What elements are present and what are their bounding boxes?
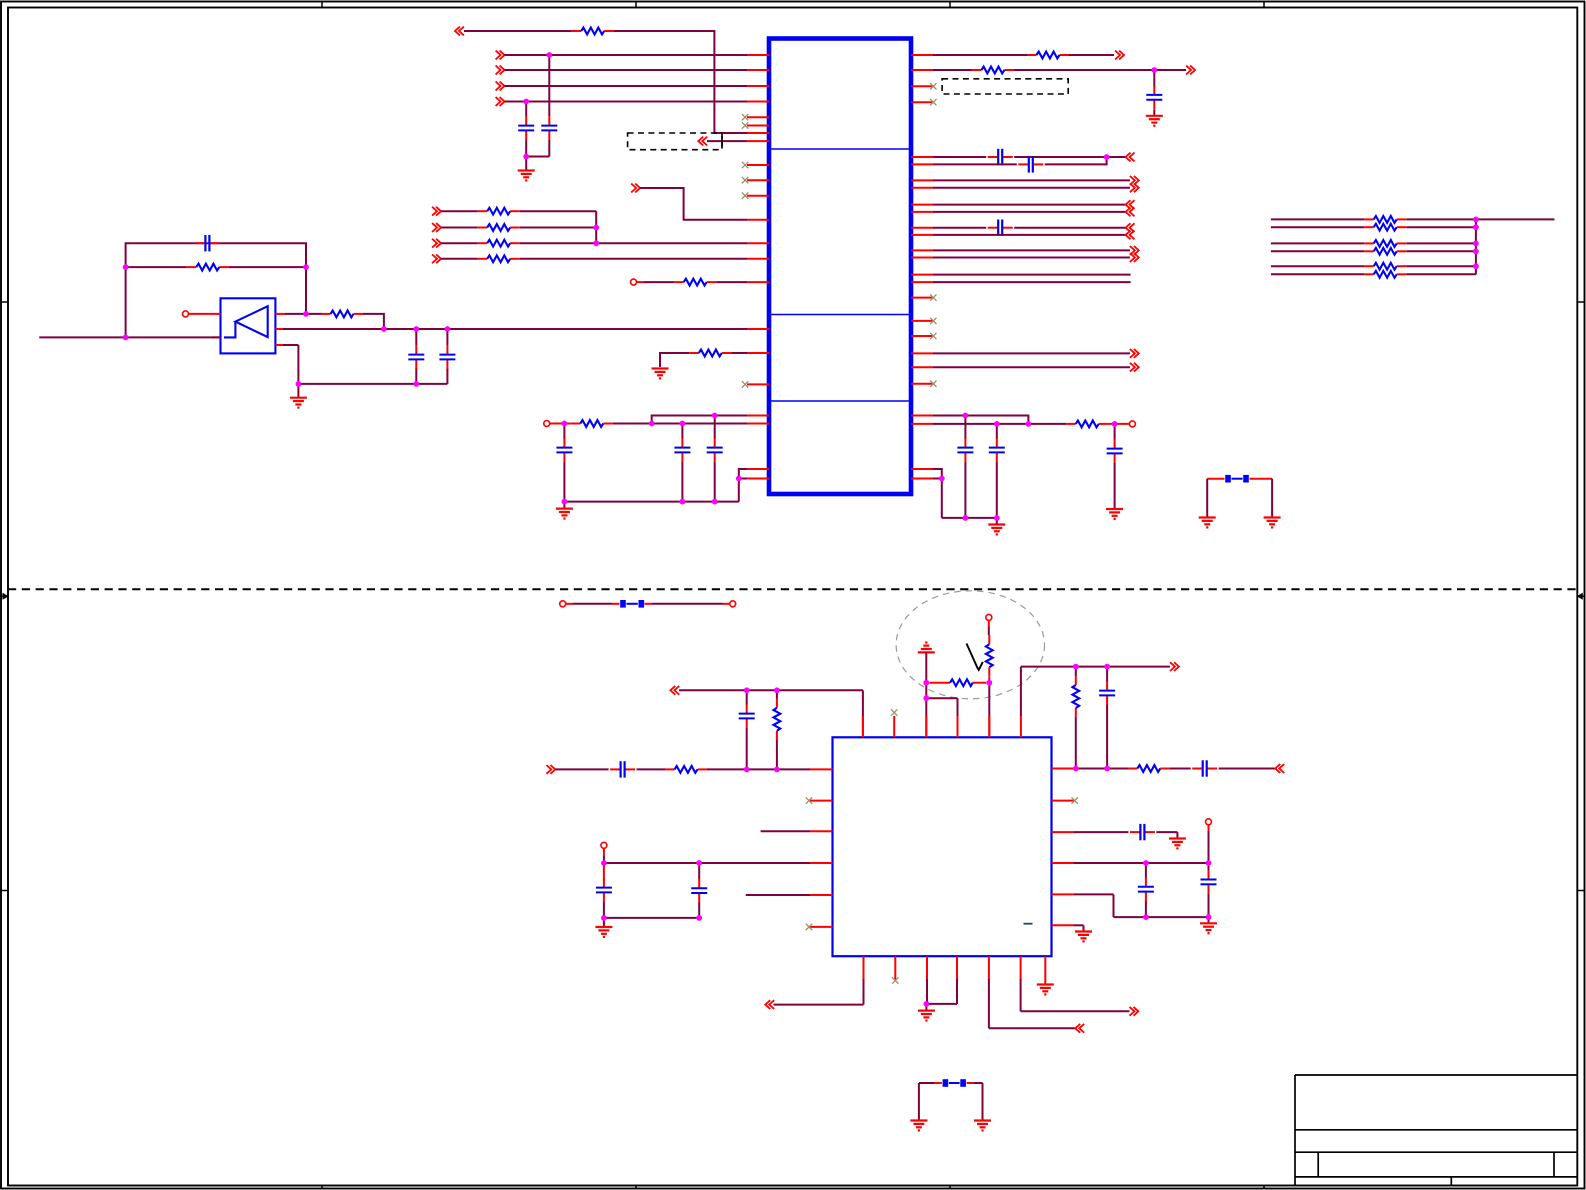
wire ri2 (933, 366, 1130, 368)
pin U1 right pin r23 (911, 415, 933, 417)
pin U1 left pin 15 (747, 281, 769, 283)
pin U1 left pin 17 (747, 352, 769, 354)
resistor R23 (1128, 765, 1170, 772)
pin U3 top pin x926.3 (925, 716, 927, 737)
ferrite bead FB2 (612, 600, 652, 608)
no-connect X2 (930, 99, 936, 105)
pin U3 top pin x957.5 (957, 716, 959, 737)
junction JB12 (1104, 766, 1110, 772)
junction J14 (413, 381, 419, 387)
resistor R12 (1027, 52, 1069, 59)
no-connect X3 (930, 294, 936, 300)
wire z1 (988, 621, 990, 635)
resistor R13 (972, 67, 1014, 74)
capacitor C13 (988, 149, 1013, 165)
wire rc1 (933, 156, 986, 158)
pin U1 right pin r2 (911, 69, 933, 71)
wire no2 (363, 314, 384, 329)
wire nn5b (1406, 273, 1476, 275)
capacitor C12 (1146, 85, 1162, 109)
no-connect X14 (806, 924, 812, 930)
pin U3 bottom pin x895.3 (894, 956, 896, 980)
wire rc2 (1014, 156, 1125, 158)
wire u3cap2 (1208, 863, 1210, 917)
wire nn0a (1271, 218, 1364, 220)
pin U1 right pin r10 (911, 211, 933, 213)
wire rbv (1153, 70, 1155, 116)
pin gnd stub4 (996, 518, 998, 524)
wire bus0 (505, 54, 748, 56)
port PB6 (1075, 1024, 1084, 1033)
wire rg2 (933, 257, 1130, 259)
wire n1b (614, 31, 747, 133)
ground G8 (1264, 518, 1281, 528)
pin U1 right pin r12 (911, 234, 933, 236)
wire rrail4 (942, 479, 997, 518)
wire rail1a (550, 423, 571, 425)
capacitor C19 (691, 879, 707, 903)
capacitor C23 (1138, 877, 1154, 901)
resistor R4 (478, 240, 520, 247)
junction JN0 (1473, 217, 1479, 223)
junction J2 (523, 99, 529, 105)
wire u3r5 (1156, 832, 1177, 838)
resistor R19 (1364, 271, 1406, 278)
wire rd1 (933, 163, 1017, 165)
junction JB6 (696, 860, 702, 866)
resistor RZ1 (986, 635, 993, 677)
wire rb2 (1014, 69, 1186, 71)
wire u3r2 (1170, 768, 1191, 770)
open terminal T7 (986, 614, 992, 620)
pin U1 left pin 12 (747, 219, 769, 221)
pin U3 left pin 2 (810, 800, 833, 802)
ground G6 (988, 525, 1005, 535)
pin gnd stub7 (925, 1004, 927, 1010)
port PA7 (1126, 208, 1135, 217)
junction J20 (680, 499, 686, 505)
resistor R5 (478, 255, 520, 262)
wire fbv1 (1206, 479, 1208, 517)
no-connect X13 (806, 797, 812, 803)
pin U2 in- (212, 336, 221, 338)
junction J15 (562, 421, 568, 427)
junction J18 (712, 413, 718, 419)
wire cv1 (1106, 667, 1108, 769)
junction J8 (123, 335, 129, 341)
wire rrail1 (933, 416, 1028, 424)
no-connect X4 (930, 318, 936, 324)
wire cc2 (604, 862, 810, 864)
port PB5 (765, 1000, 774, 1009)
junction J11 (413, 326, 419, 332)
junction JB17 (924, 1001, 930, 1007)
junction J22 (736, 476, 742, 482)
pin U3 bottom pin x1045.3 (1044, 956, 1046, 980)
resistor R6 (674, 279, 716, 286)
open terminal T6 (730, 601, 736, 607)
ground G13 (1200, 923, 1217, 933)
wire n1a (464, 30, 572, 32)
IC U3 body (833, 737, 1052, 956)
junction J17 (680, 421, 686, 427)
ground G15 (918, 1011, 935, 1021)
wire nr0b (520, 210, 597, 212)
no-connect X1 (930, 83, 936, 89)
resistor R20 (774, 698, 781, 740)
junction JB4 (774, 767, 780, 773)
pin U1 left pin 18 (747, 383, 769, 385)
wire u3l5 (746, 894, 810, 896)
wire n9a (660, 353, 689, 367)
pin U3 left pin 4 (810, 862, 833, 864)
wire rail2 (652, 416, 747, 424)
wire cc1 (603, 849, 605, 864)
capacitor C3 (195, 235, 220, 251)
capacitor C9 (957, 438, 973, 462)
wire capv3 (714, 416, 716, 502)
port PA5 (1130, 183, 1139, 192)
junction J7 (303, 264, 309, 270)
wire u3in2 (637, 768, 665, 770)
wire nn4a (1271, 265, 1364, 267)
junction JN4 (1473, 263, 1479, 269)
pin U2 vee (275, 344, 283, 346)
no-connect X9 (742, 162, 748, 168)
capacitor C1 (541, 116, 557, 140)
wire bus2 (505, 85, 748, 87)
pin U1 right pin r6 (911, 163, 933, 165)
wire u3r6 (1208, 825, 1210, 863)
capacitor C17 (610, 761, 635, 777)
pin U1 right pin r19 (911, 335, 933, 337)
wire nntop (1476, 218, 1555, 220)
wire netbus (1475, 219, 1477, 274)
resistor R15 (1364, 224, 1406, 231)
left border arrow (1, 593, 9, 600)
port PA8 (1126, 223, 1135, 232)
ground G3 (290, 398, 307, 408)
no-connect X15 (891, 709, 897, 715)
junction JB14 (1206, 860, 1212, 866)
no-connect X17 (892, 977, 898, 983)
wire u3cap1 (1145, 863, 1147, 917)
junction J12 (445, 326, 451, 332)
junction JB2 (774, 687, 780, 693)
pin U3 right pin 3 (1052, 831, 1075, 833)
resistor R11 (1066, 421, 1108, 428)
wire u3rail (1074, 894, 1209, 917)
pin U3 right pin 1 (1052, 768, 1075, 770)
wire nn3a (1271, 250, 1364, 252)
pin U3 right pin 5 (1052, 893, 1075, 895)
junction JB10 (1104, 664, 1110, 670)
wire rf1 (933, 227, 986, 229)
wire bus1 (505, 69, 748, 71)
no-connect X10 (742, 177, 748, 183)
junction JN3 (1473, 248, 1479, 254)
wire nr1b (520, 227, 597, 229)
wire nr2a (441, 242, 478, 244)
junction J9 (303, 311, 309, 317)
wire capdrop2 (446, 329, 448, 345)
port PA11 (1130, 253, 1139, 262)
pin U3 right pin 2 (1052, 800, 1075, 802)
port P10 (432, 239, 441, 248)
pin U1 left pin 20 (747, 423, 769, 425)
pin U1 left pin 10 (747, 179, 769, 181)
junction J27 (963, 515, 969, 521)
open terminal T3 (544, 421, 550, 427)
pin gnd stub3 (563, 502, 565, 508)
port PB4 (1275, 764, 1284, 773)
resistor R7 (689, 350, 731, 357)
wire u3b2 (926, 979, 957, 1004)
port PA13 (1130, 363, 1139, 372)
wire bus3 (505, 101, 748, 103)
resistor R21 (665, 766, 707, 773)
wire fb2 (126, 266, 306, 268)
resistor R18 (1364, 263, 1406, 270)
no-connect X7 (742, 114, 748, 120)
junction J21 (712, 499, 718, 505)
port PA10 (1130, 246, 1139, 255)
wire capv2 (681, 424, 683, 502)
port P7 (631, 184, 640, 193)
junction J6 (123, 264, 129, 270)
pin U1 left pin 16 (747, 328, 769, 330)
wire n8a (637, 281, 675, 283)
no-connect X6 (930, 381, 936, 387)
wire cap drop a (548, 55, 550, 157)
port PA3 (1126, 153, 1135, 162)
junction J16 (649, 421, 655, 427)
pin U1 right pin r9 (911, 204, 933, 206)
capacitor C11 (1107, 439, 1123, 463)
no-connect X11 (742, 193, 748, 199)
pin U1 left pin 11 (747, 195, 769, 197)
wire gnd rail (298, 368, 447, 384)
pin U1 left pin 4 (747, 101, 769, 103)
wire g4 (926, 698, 957, 737)
resistor R22 (1072, 676, 1079, 718)
no-connect X5 (930, 333, 936, 339)
ground G10 (918, 643, 935, 653)
junction JN1 (1473, 224, 1479, 230)
pin U3 right pin 6 (1052, 924, 1075, 926)
dashed directive box 2 (942, 79, 1068, 94)
wire n7 (640, 188, 747, 220)
junction J5 (593, 240, 599, 246)
wire u3r7 (1074, 862, 1209, 864)
capacitor C15 (988, 220, 1013, 236)
capacitor C8 (707, 438, 723, 462)
pin U3 left pin 6 (810, 926, 833, 928)
junction JB16 (1206, 914, 1212, 920)
junction JB9 (1073, 664, 1079, 670)
wire capb1 (746, 690, 748, 769)
capacitor C6 (556, 438, 572, 462)
wire nn1a (1271, 226, 1364, 228)
pin U2 out2 (275, 328, 283, 330)
pin U3 left pin 5 (810, 894, 833, 896)
pin U1 left pin 21 (747, 468, 769, 470)
wire nr3b (520, 258, 747, 260)
IC U1 section line 3 (771, 400, 909, 402)
port PB2 (546, 765, 555, 774)
wire u3r8 (1074, 925, 1084, 931)
no-connect X12 (742, 381, 748, 387)
wire g2 (925, 683, 927, 699)
ground G5 (1106, 509, 1123, 519)
open terminal T2 (183, 311, 189, 317)
junction J25 (994, 421, 1000, 427)
ground G16 (1037, 985, 1054, 995)
junction JB3 (744, 767, 750, 773)
wire u3b3 (989, 979, 1075, 1028)
pin U1 left pin 2 (747, 69, 769, 71)
wire ri1 (933, 352, 1130, 354)
pin U1 right pin r16 (911, 281, 933, 283)
wire u3b1 (774, 979, 864, 1005)
junction J29 (939, 476, 945, 482)
junction J19 (562, 499, 568, 505)
junction J31 (1104, 154, 1110, 160)
wire ra1 (933, 54, 1027, 56)
pin U2 in+ (189, 313, 221, 315)
pin U1 left pin 5 (747, 116, 769, 118)
no-connect X16 (1072, 797, 1078, 803)
pin U1 right pin r15 (911, 274, 933, 276)
wire n6 (707, 140, 747, 142)
pin U1 left pin 6 (747, 125, 769, 127)
pin U1 left pin 1 (747, 54, 769, 56)
wire re1 (933, 179, 1130, 181)
wire nr1a (441, 227, 478, 229)
capacitor C21 (1192, 760, 1217, 776)
junction J26 (1112, 421, 1118, 427)
pin U3 top pin x862.9 (862, 716, 864, 737)
junction J13 (296, 381, 302, 387)
pin U1 left pin 9 (747, 164, 769, 166)
pin U3 bottom pin x927 (926, 956, 928, 980)
pin U1 right pin r13 (911, 249, 933, 251)
wire rail1b (613, 423, 747, 425)
wire g3 (925, 698, 927, 737)
capacitor C24 (1201, 870, 1217, 894)
port PA4 (1130, 176, 1139, 185)
wire nr0a (441, 210, 478, 212)
wire u3r3 (1219, 768, 1276, 770)
junction JB1 (744, 687, 750, 693)
wire nr3a (441, 258, 478, 260)
capacitor C7 (674, 438, 690, 462)
IC U1 section line 2 (771, 314, 909, 316)
pin U1 left pin 7 (747, 132, 769, 134)
wire no3 (283, 328, 747, 330)
port P8 (432, 207, 441, 216)
wire re2 (933, 187, 1130, 189)
port P2 (496, 51, 505, 60)
capacitor C5 (439, 345, 455, 369)
resistor R2 (478, 208, 520, 215)
pin U1 left pin 22 (747, 478, 769, 480)
wire vee drop (283, 345, 298, 384)
pin U1 left pin 8 (747, 140, 769, 142)
wire nn1b (1406, 226, 1476, 228)
highlight ellipse (896, 591, 1044, 699)
bead FB2 leads (566, 603, 730, 605)
wire u3l3 (761, 830, 810, 832)
wire u3r1 (1074, 768, 1128, 770)
wire u3top (679, 690, 863, 737)
junction JB5 (601, 860, 607, 866)
right border arrow (1577, 593, 1585, 600)
open terminal T8 (601, 842, 607, 848)
resistor R3 (478, 224, 520, 231)
wire z2 (988, 677, 990, 683)
pin U3 bottom pin x988.9 (988, 956, 990, 980)
wire botrail (564, 479, 738, 502)
pin U3 bottom pin x1020.6 (1020, 956, 1022, 980)
pin U3 right pin 4 (1052, 862, 1075, 864)
pin U1 right pin r25 (911, 468, 933, 470)
IC U3 pin1 mark (1024, 923, 1033, 925)
resistor R16 (1364, 240, 1406, 247)
pin U2 out (275, 313, 285, 315)
junction J23 (963, 413, 969, 419)
open terminal T9 (1206, 819, 1212, 825)
wire fb1 (126, 243, 306, 337)
port P4 (496, 82, 505, 91)
pin U1 right pin r7 (911, 179, 933, 181)
capacitor C2 (518, 116, 534, 140)
ground G9 (1146, 116, 1163, 126)
ground G4 (556, 509, 573, 519)
pin gnd stub2 (297, 384, 299, 397)
junction J4 (593, 225, 599, 231)
op-amp U2 body (221, 298, 276, 353)
wire u3b4 (1021, 979, 1130, 1011)
port P3 (496, 66, 505, 75)
pin U1 left pin 3 (747, 85, 769, 87)
wire nn2b (1406, 242, 1476, 244)
pin U1 right pin r26 (911, 478, 933, 480)
junction JB7 (601, 915, 607, 921)
pin gnd stub (525, 157, 527, 171)
wire rcap3 (1114, 424, 1116, 508)
ground G12 (1169, 839, 1186, 849)
junction JB8 (696, 915, 702, 921)
wire nn5a (1271, 273, 1364, 275)
IC U1 body (769, 39, 911, 495)
wire n8b (716, 281, 747, 283)
wire nr0c (595, 211, 597, 243)
pin U1 right pin r22 (911, 383, 933, 385)
pin U3 top pin x1020.9 (1020, 716, 1022, 737)
pin gnd stub5 (603, 918, 605, 927)
ground G2 (652, 369, 669, 379)
pin U3 bottom pin x957 (956, 956, 958, 980)
ferrite bead FB1 (1207, 475, 1272, 483)
resistor R10 (571, 420, 613, 427)
wire fbv2 (1271, 479, 1273, 517)
junction JZ2 (923, 680, 929, 686)
capacitor C14 (1018, 156, 1043, 172)
junction JB11 (1073, 766, 1079, 772)
junction JN2 (1473, 241, 1479, 247)
ground G1 (518, 171, 535, 181)
